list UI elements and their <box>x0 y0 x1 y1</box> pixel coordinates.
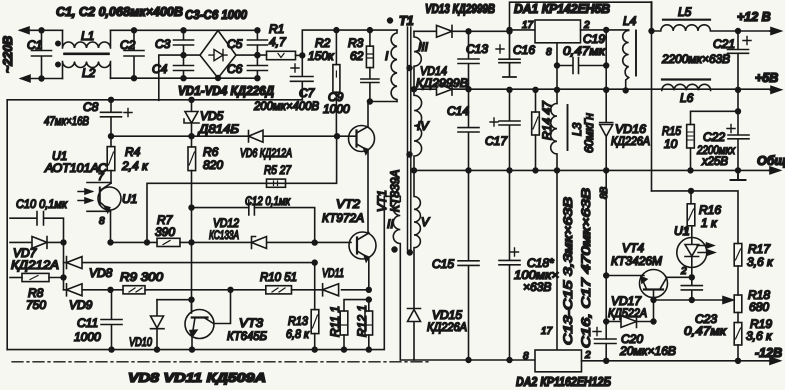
feedback line to divider <box>652 191 739 244</box>
svg-text:КТ972А: КТ972А <box>322 211 364 225</box>
svg-text:C11: C11 <box>77 316 98 330</box>
diode VD9 <box>64 284 111 296</box>
svg-text:С13-С15 3,3мк×63В: С13-С15 3,3мк×63В <box>561 197 575 345</box>
pin8/L3 vertical bus <box>556 66 558 104</box>
capacitor C13 <box>466 29 471 34</box>
svg-text:L2: L2 <box>82 66 96 80</box>
capacitor C8 47mkx16V <box>109 97 114 102</box>
svg-text:VT2: VT2 <box>336 197 360 211</box>
wire rail B y136 <box>111 135 337 137</box>
transformer T1 winding II <box>384 196 400 360</box>
svg-text:-12В: -12В <box>755 346 782 360</box>
svg-text:4,7: 4,7 <box>269 35 287 49</box>
svg-text:R12 1: R12 1 <box>355 305 369 337</box>
diode VD8 <box>64 257 315 269</box>
svg-text:+12 В: +12 В <box>737 10 771 24</box>
wire primary common rail <box>7 196 384 349</box>
svg-text:C3: C3 <box>155 37 171 51</box>
svg-text:C12 0,1мк: C12 0,1мк <box>245 194 291 208</box>
boundary dash-dot line <box>12 361 430 363</box>
svg-text:3,6 к: 3,6 к <box>746 329 773 343</box>
svg-text:R16: R16 <box>699 203 721 217</box>
svg-text:C5: C5 <box>227 37 243 51</box>
svg-text:VD10: VD10 <box>129 335 152 349</box>
resistor R7 390 <box>157 238 180 246</box>
regulator DA1 KR142EN5V <box>510 2 652 31</box>
svg-text:R6: R6 <box>203 145 219 159</box>
svg-text:КД226А: КД226А <box>611 134 650 148</box>
transformer T1 winding III <box>414 31 421 89</box>
node ~220V input bottom terminal <box>21 78 63 80</box>
node R1/C7 junction <box>300 53 305 58</box>
resistor R16 1k <box>690 191 692 204</box>
capacitor C12 0,1mk <box>249 200 255 215</box>
label R6 820 + resistor <box>188 147 196 171</box>
svg-text:C22: C22 <box>703 130 725 144</box>
ground stub bar <box>731 170 746 180</box>
svg-text:КТ645Б: КТ645Б <box>227 329 267 343</box>
core of L1/L2 <box>65 52 109 55</box>
svg-text:R10 51: R10 51 <box>260 270 297 284</box>
svg-text:2,4 к: 2,4 к <box>121 159 149 173</box>
svg-text:1000: 1000 <box>74 330 101 344</box>
resistor R19 3,6k <box>734 323 742 346</box>
svg-text:АОТ101АС: АОТ101АС <box>44 161 107 175</box>
resistor R10 51 <box>266 286 292 294</box>
svg-text:R17: R17 <box>748 242 771 256</box>
resistor R18 680 (trimmer) <box>734 295 742 313</box>
svg-text:КС133А: КС133А <box>209 228 239 242</box>
transistor VT2 KT972A <box>349 232 376 259</box>
capacitor C23 0,47mk <box>681 277 702 300</box>
secondary negative rail y359 <box>400 359 535 361</box>
transformer T1 winding V <box>414 170 420 307</box>
capacitor C3 <box>174 30 194 55</box>
zener VD5 D814B <box>189 97 194 102</box>
resistor R3 62 <box>368 28 373 33</box>
svg-text:L5: L5 <box>678 5 692 19</box>
svg-text:8В: 8В <box>599 186 610 199</box>
svg-text:C17: C17 <box>485 134 508 148</box>
svg-text:КД522А: КД522А <box>608 306 647 320</box>
ground rail y170.4 <box>414 169 770 171</box>
node VT1 base <box>335 134 340 139</box>
capacitor C15 <box>458 170 479 360</box>
capacitor C2 <box>124 30 144 78</box>
inductor L2 (common-mode choke bottom winding) <box>63 62 111 79</box>
wire R5 line y183 <box>147 136 337 242</box>
capacitor C21 2200mkx63V <box>736 29 741 34</box>
svg-text:C7: C7 <box>299 86 316 100</box>
inductor L5 <box>652 25 771 31</box>
bridge rectifier VD1-VD4 diamond <box>200 31 236 79</box>
diode VD10 <box>151 300 165 350</box>
resistor R8 750 <box>10 277 22 279</box>
svg-text:КТ839А: КТ839А <box>388 170 402 212</box>
svg-text:1 к: 1 к <box>701 216 718 230</box>
diode VD13 KD2999V <box>414 25 510 37</box>
svg-text:C13: C13 <box>466 42 488 56</box>
svg-text:0,47мк: 0,47мк <box>684 324 728 338</box>
diode VD16 KD226A <box>600 90 613 171</box>
svg-text:R9 300: R9 300 <box>120 270 163 284</box>
capacitor C6 <box>247 55 267 78</box>
svg-text:20мк×16В: 20мк×16В <box>619 344 676 358</box>
transformer T1 winding IV <box>414 89 422 170</box>
capacitor C5 <box>247 30 267 55</box>
svg-text:6,8 к: 6,8 к <box>286 327 310 341</box>
svg-text:8: 8 <box>523 351 529 362</box>
capacitor C7 200mkx400V electrolytic <box>291 55 314 99</box>
capacitor C1 <box>32 30 52 78</box>
diode VD17 KD522A <box>604 273 609 278</box>
svg-text:2: 2 <box>583 20 590 31</box>
pin 8 wire of DA1 <box>556 43 558 66</box>
svg-text:×63В: ×63В <box>523 280 551 294</box>
svg-text:C1, C2 0,068мк×400В: C1, C2 0,068мк×400В <box>56 5 183 19</box>
resistor R5 27 <box>267 179 286 187</box>
svg-text:U1: U1 <box>122 192 137 206</box>
svg-text:II: II <box>387 217 394 231</box>
regulator DA2 KR1162EN12B <box>535 350 582 372</box>
wire bridge positive output to R1 <box>236 54 267 56</box>
svg-text:1000: 1000 <box>323 102 350 116</box>
capacitor C19 0,47mk <box>555 63 560 68</box>
svg-text:КД226А: КД226А <box>427 320 467 334</box>
svg-text:U1: U1 <box>674 224 689 238</box>
svg-text:C3-C6 1000: C3-C6 1000 <box>185 8 247 22</box>
svg-text:VT3: VT3 <box>239 316 263 330</box>
svg-text:60мкГн: 60мкГн <box>582 113 596 153</box>
wire diode fork vertical <box>63 242 65 289</box>
node collector junction <box>368 99 373 104</box>
resistor R14 47 <box>535 90 537 112</box>
svg-text:L6: L6 <box>680 91 694 105</box>
+12V terminal <box>770 30 780 32</box>
svg-text:C10 0,1мк: C10 0,1мк <box>16 197 68 211</box>
svg-text:C14: C14 <box>447 104 469 118</box>
capacitor C14 <box>458 89 479 170</box>
wire left bus vertical <box>6 100 8 350</box>
svg-text:~220В: ~220В <box>1 36 15 73</box>
svg-text:III: III <box>418 40 429 54</box>
svg-text:V: V <box>421 215 430 229</box>
bus x191.5 vertical <box>191 136 193 310</box>
svg-text:200мк×400В: 200мк×400В <box>253 99 319 113</box>
svg-text:62: 62 <box>350 49 364 63</box>
wire DA1 output down to C19 <box>604 28 609 33</box>
svg-text:+5В: +5В <box>755 71 778 85</box>
svg-text:C21: C21 <box>713 37 735 51</box>
wire winding I bottom to junction <box>370 101 397 103</box>
capacitor C17 470mk <box>499 90 520 171</box>
capacitor C10 0,1mk <box>10 212 64 243</box>
wire +5 raw rail y89.5 <box>452 88 770 90</box>
resistor R13 6,8k <box>314 263 316 310</box>
svg-text:R5 27: R5 27 <box>264 163 292 177</box>
svg-text:C8: C8 <box>83 100 99 114</box>
transistor VT1 KT839A <box>349 126 375 152</box>
svg-text:КД212А: КД212А <box>11 258 59 272</box>
capacitor C18 100mk <box>499 170 520 360</box>
svg-text:150к: 150к <box>308 49 335 63</box>
wire top rail to bridge <box>111 29 258 31</box>
transistor VT3 KT645B <box>185 310 214 339</box>
+5V terminal <box>736 87 741 92</box>
svg-text:VD1-VD4 КД226Д: VD1-VD4 КД226Д <box>178 84 274 98</box>
resistor R12 <box>368 300 370 311</box>
svg-text:8: 8 <box>546 47 552 58</box>
svg-text:IV: IV <box>417 119 429 133</box>
capacitor C16 470mk electrolytic <box>507 29 512 34</box>
svg-text:R2: R2 <box>315 36 331 50</box>
svg-text:C15: C15 <box>432 257 454 271</box>
svg-text:VD8 VD11 КД509А: VD8 VD11 КД509А <box>128 371 266 385</box>
svg-text:C4: C4 <box>152 62 168 76</box>
diode VD6 KD212A <box>249 130 264 142</box>
capacitor C4 <box>174 55 194 78</box>
svg-text:VD6 КД212А: VD6 КД212А <box>240 146 292 160</box>
svg-text:КТ3426М: КТ3426М <box>611 254 662 268</box>
inductor L3 60mkGn <box>551 103 557 170</box>
svg-text:VD8: VD8 <box>89 266 113 280</box>
resistor R15 10 <box>691 111 739 124</box>
svg-text:х25В: х25В <box>701 154 728 168</box>
wire C12 line y207.5 <box>189 205 194 210</box>
svg-text:C2: C2 <box>120 38 136 52</box>
resistor R4 2,4k <box>110 136 112 146</box>
common terminal <box>736 168 741 173</box>
svg-text:Т1: Т1 <box>399 14 414 28</box>
svg-text:R3: R3 <box>348 36 364 50</box>
svg-text:VD13 КД2999В: VD13 КД2999В <box>425 2 495 16</box>
diode VD14 KD2999V <box>412 87 417 92</box>
transformer T1 core <box>408 27 411 250</box>
svg-text:10: 10 <box>664 137 678 151</box>
svg-text:3,6 к: 3,6 к <box>747 255 774 269</box>
capacitor C20 20mkx16V <box>595 339 617 361</box>
svg-text:820: 820 <box>203 158 223 172</box>
wire C7 minus to negative bus <box>7 99 302 101</box>
diode VD15 KD226A <box>408 309 421 361</box>
svg-text:C1: C1 <box>27 38 42 52</box>
svg-text:R4: R4 <box>125 145 141 159</box>
wire base line y289.8 <box>108 287 113 292</box>
diode VD7 KD212A <box>10 237 64 249</box>
svg-text:DA2 КР1162ЕН12Б: DA2 КР1162ЕН12Б <box>516 375 611 389</box>
diode VD11 <box>323 284 339 296</box>
DA2 pin17 wire <box>556 170 558 350</box>
svg-text:750: 750 <box>26 298 46 312</box>
svg-text:С16, С17 470мк×63В: С16, С17 470мк×63В <box>579 188 593 348</box>
svg-text:47мк×16В: 47мк×16В <box>44 114 89 128</box>
inductor L1 (common-mode choke top winding) <box>63 30 111 48</box>
node VD8 line to R13 bus <box>312 260 317 265</box>
capacitor C9 1000 <box>361 68 379 102</box>
svg-text:Д814Б: Д814Б <box>197 122 239 136</box>
svg-text:R11 1: R11 1 <box>328 306 342 337</box>
+12V heavy feed line <box>651 2 653 31</box>
capacitor C11 1000 <box>101 290 122 350</box>
resistor R17 3,6k <box>734 244 742 267</box>
svg-text:17: 17 <box>522 20 534 31</box>
capacitor C22 2200mkx25V <box>728 90 749 171</box>
resistor R2 150k <box>334 28 339 33</box>
svg-text:VD5: VD5 <box>200 109 224 123</box>
svg-text:R1: R1 <box>269 22 284 36</box>
svg-text:L1: L1 <box>81 29 94 43</box>
svg-text:17: 17 <box>541 326 553 337</box>
wire bottom rail to C6 <box>111 77 258 79</box>
transistor VT4 KT3426M <box>640 270 668 298</box>
wire bridge negative output to left bus <box>159 55 200 100</box>
svg-text:R15: R15 <box>662 124 681 138</box>
svg-text:L4: L4 <box>623 14 637 28</box>
resistor R1 4,7 <box>267 51 296 59</box>
-12V terminal <box>769 360 779 362</box>
node ~220V input top terminal <box>20 29 63 31</box>
svg-text:VD11: VD11 <box>322 266 344 280</box>
wire VT2 base line y242.5 <box>111 241 352 243</box>
wiper line with arrow to R18 <box>689 298 694 303</box>
svg-text:R14 47: R14 47 <box>540 100 554 140</box>
svg-text:8: 8 <box>99 216 105 227</box>
svg-text:0,47мк: 0,47мк <box>563 44 607 58</box>
svg-text:VT4: VT4 <box>622 241 644 255</box>
svg-text:C16: C16 <box>513 43 535 57</box>
svg-text:КД2999В: КД2999В <box>416 76 468 90</box>
transformer T1 winding I <box>391 30 397 101</box>
svg-text:2200мк×63В: 2200мк×63В <box>661 52 730 66</box>
svg-text:VD9: VD9 <box>69 298 93 312</box>
svg-text:Общ.: Общ. <box>757 154 785 168</box>
svg-text:I: I <box>385 49 389 63</box>
inductor L6 <box>662 84 711 90</box>
phase dots L1 L2 <box>56 41 60 45</box>
diode symbol inside bridge <box>209 50 227 61</box>
optocoupler U1 LED side <box>691 226 693 238</box>
svg-text:2: 2 <box>584 350 591 361</box>
svg-text:VT1: VT1 <box>375 190 389 212</box>
svg-text:390: 390 <box>155 225 175 239</box>
svg-text:DA1 КР142ЕН5В: DA1 КР142ЕН5В <box>514 2 610 16</box>
resistor R11 <box>344 300 369 311</box>
svg-text:2: 2 <box>680 266 687 277</box>
inductor L4 <box>606 30 629 91</box>
svg-text:R13: R13 <box>288 314 308 328</box>
zener VD12 KS133A <box>252 237 267 249</box>
svg-text:680: 680 <box>749 300 769 314</box>
resistor R9 300 <box>123 286 145 294</box>
